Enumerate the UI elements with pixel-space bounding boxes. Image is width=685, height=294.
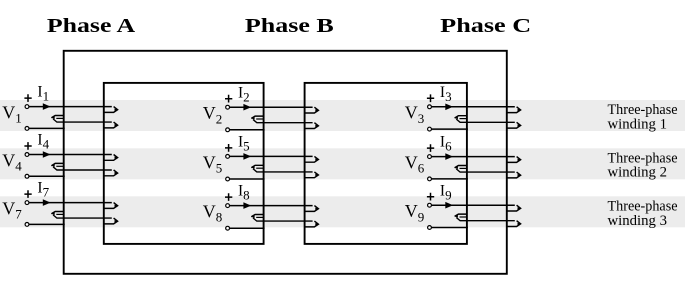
terminal + of winding 6 <box>428 155 432 159</box>
wire top terminal 7 <box>29 202 112 204</box>
coil turn 2 of winding 7 <box>51 212 63 214</box>
wire top terminal 5 <box>230 155 313 157</box>
svg-text:Phase C: Phase C <box>440 15 531 37</box>
wire bottom terminal 6 <box>432 178 468 180</box>
terminal - of winding 9 <box>428 226 432 230</box>
label + polarity V3 <box>427 94 434 102</box>
svg-text:winding 1: winding 1 <box>608 116 668 132</box>
coil turn 2 of winding 2 <box>251 116 263 118</box>
terminal - of winding 1 <box>25 126 29 130</box>
coil turn 1 of winding 4 <box>104 155 117 161</box>
coil turn 3 of winding 6 <box>507 172 520 178</box>
coil turn 1 of winding 8 <box>305 206 318 212</box>
wire top terminal 4 <box>29 154 112 156</box>
svg-text:Phase A: Phase A <box>47 15 136 37</box>
coil turn 1 of winding 5 <box>305 156 318 162</box>
terminal + of winding 8 <box>226 204 230 208</box>
coil turn 3 of winding 3 <box>507 122 520 128</box>
terminal + of winding 3 <box>428 105 432 109</box>
coil turn 3 of winding 2 <box>305 123 318 129</box>
current arrow I4 <box>43 151 51 158</box>
wire coil front crossing of winding 7 <box>53 215 112 218</box>
wire top terminal 3 <box>432 106 515 108</box>
wire coil front crossing of winding 9 <box>456 218 515 221</box>
wire bottom terminal 8 <box>230 227 265 229</box>
coil turn 1 of winding 7 <box>104 203 117 209</box>
coil turn 2 of winding 1 <box>51 116 63 118</box>
winding row 1 highlight band <box>0 100 685 131</box>
wire coil front crossing of winding 4 <box>53 167 112 170</box>
label + polarity V6 <box>427 144 434 152</box>
wire coil front crossing of winding 1 <box>53 119 112 122</box>
current arrow I1 <box>43 103 51 110</box>
core inner box 1 <box>104 83 264 244</box>
wire coil front crossing of winding 8 <box>253 218 313 221</box>
current arrow I7 <box>43 199 51 206</box>
wire bottom terminal 1 <box>29 127 65 129</box>
terminal - of winding 5 <box>226 177 230 181</box>
svg-text:I2: I2 <box>238 84 250 104</box>
svg-text:winding 2: winding 2 <box>608 165 668 181</box>
wire bottom terminal 9 <box>432 227 468 229</box>
coil turn 2 of winding 8 <box>251 215 263 217</box>
svg-text:I4: I4 <box>37 132 49 152</box>
wire top terminal 9 <box>432 204 515 206</box>
svg-text:Phase B: Phase B <box>245 15 334 37</box>
terminal - of winding 3 <box>428 127 432 131</box>
svg-text:winding 3: winding 3 <box>608 213 668 229</box>
wire top terminal 2 <box>230 106 313 108</box>
terminal + of winding 2 <box>226 105 230 109</box>
terminal - of winding 8 <box>226 226 230 230</box>
label + polarity V4 <box>24 142 31 150</box>
terminal + of winding 4 <box>25 153 29 157</box>
coil turn 3 of winding 5 <box>305 172 318 178</box>
current arrow I3 <box>445 104 453 111</box>
wire bottom terminal 5 <box>230 178 265 180</box>
wire top terminal 1 <box>29 106 112 108</box>
current arrow I9 <box>445 202 453 209</box>
label + polarity V9 <box>427 193 434 201</box>
svg-text:I6: I6 <box>440 134 452 154</box>
svg-text:I1: I1 <box>37 84 49 104</box>
terminal + of winding 1 <box>25 105 29 109</box>
terminal - of winding 4 <box>25 174 29 178</box>
coil turn 3 of winding 9 <box>507 221 520 227</box>
terminal + of winding 7 <box>25 201 29 205</box>
current arrow I8 <box>243 202 251 209</box>
wire top terminal 6 <box>432 156 515 158</box>
coil turn 2 of winding 9 <box>455 214 467 216</box>
svg-text:I7: I7 <box>37 180 49 200</box>
coil turn 1 of winding 9 <box>507 205 520 211</box>
terminal + of winding 9 <box>428 203 432 207</box>
svg-text:I3: I3 <box>440 84 452 104</box>
coil turn 2 of winding 4 <box>51 163 63 165</box>
svg-text:I9: I9 <box>440 182 452 202</box>
label + polarity V7 <box>24 190 31 198</box>
coil turn 1 of winding 6 <box>507 157 520 163</box>
coil turn 1 of winding 3 <box>507 107 520 113</box>
terminal - of winding 7 <box>25 223 29 227</box>
current arrow I5 <box>243 153 251 160</box>
wire bottom terminal 2 <box>230 129 265 131</box>
label + polarity V8 <box>225 193 232 201</box>
wire bottom terminal 4 <box>29 175 65 177</box>
coil turn 3 of winding 8 <box>305 221 318 227</box>
winding row 2 highlight band <box>0 148 685 179</box>
wire coil front crossing of winding 3 <box>456 119 515 122</box>
terminal - of winding 2 <box>226 128 230 132</box>
wire coil front crossing of winding 6 <box>456 169 515 172</box>
winding row 3 highlight band <box>0 196 685 227</box>
label + polarity V1 <box>24 94 31 102</box>
terminal - of winding 6 <box>428 177 432 181</box>
terminal + of winding 5 <box>226 155 230 159</box>
wire top terminal 8 <box>230 205 313 207</box>
coil turn 3 of winding 7 <box>104 218 117 224</box>
coil turn 2 of winding 5 <box>251 165 263 167</box>
coil turn 1 of winding 1 <box>104 107 117 113</box>
label + polarity V2 <box>225 95 232 103</box>
coil turn 2 of winding 3 <box>455 116 467 118</box>
wire bottom terminal 7 <box>29 223 65 225</box>
wire bottom terminal 3 <box>432 128 468 130</box>
core inner box 2 <box>305 83 467 244</box>
wire coil front crossing of winding 2 <box>253 120 313 123</box>
core outer box <box>64 51 507 274</box>
coil turn 3 of winding 4 <box>104 170 117 176</box>
coil turn 3 of winding 1 <box>104 122 117 128</box>
current arrow I2 <box>243 104 251 111</box>
coil turn 2 of winding 6 <box>455 166 467 168</box>
current arrow I6 <box>445 153 453 160</box>
svg-text:I8: I8 <box>238 183 250 203</box>
coil turn 1 of winding 2 <box>305 107 318 113</box>
wire coil front crossing of winding 5 <box>253 169 313 172</box>
label + polarity V5 <box>225 144 232 152</box>
